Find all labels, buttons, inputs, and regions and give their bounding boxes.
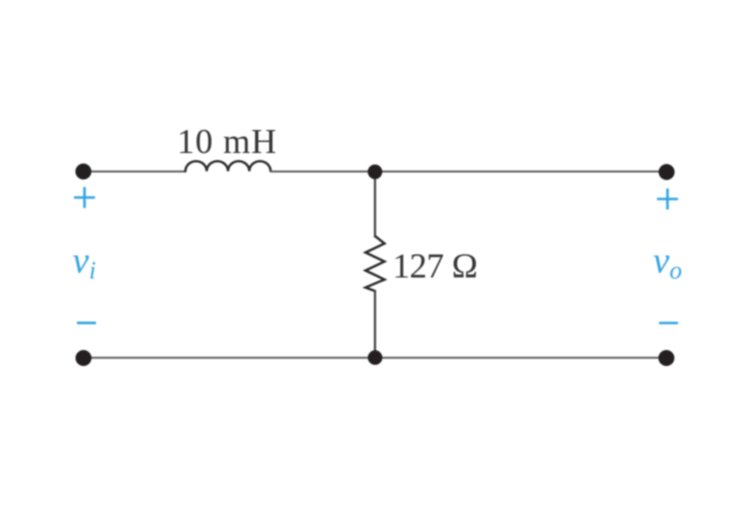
terminal top-left (75, 164, 91, 180)
label 10 mH (177, 122, 277, 161)
svg-text:127 Ω: 127 Ω (393, 247, 478, 286)
minus sign right (659, 322, 678, 325)
svg-text:vi: vi (73, 241, 96, 285)
wire top-right (inductor to output) (270, 171, 667, 173)
svg-text:10 mH: 10 mH (177, 122, 277, 161)
label vo (653, 241, 682, 285)
wire vertical lower (resistor to bottom node) (374, 290, 376, 358)
inductor L (10 mH) (185, 161, 270, 171)
svg-text:vo: vo (653, 241, 682, 285)
wire top-left (input to inductor) (83, 171, 186, 173)
label 127 ohm (393, 247, 478, 286)
minus sign left (77, 322, 96, 325)
junction node bottom (368, 350, 383, 365)
label vi (73, 241, 96, 285)
terminal bottom-left (76, 350, 92, 366)
plus sign right (657, 189, 678, 210)
resistor R (127 ohm) zigzag (366, 236, 385, 291)
plus sign left (74, 187, 95, 208)
junction node top (368, 165, 383, 180)
wire vertical upper (top node to resistor) (374, 172, 376, 238)
wire bottom (83, 357, 667, 359)
terminal top-right (659, 164, 675, 180)
terminal bottom-right (658, 350, 674, 366)
